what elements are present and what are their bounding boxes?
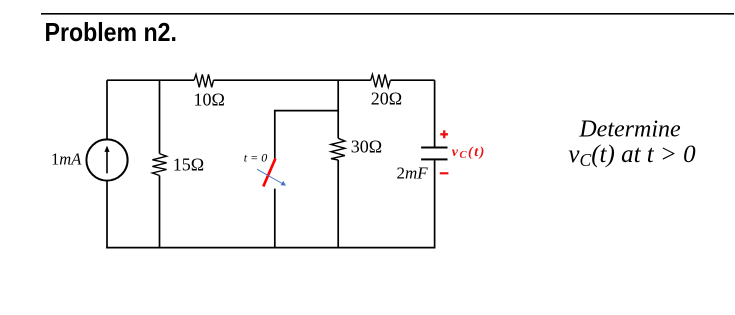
svg-text:2mF: 2mF [397, 164, 429, 183]
value label 10Ω [194, 90, 225, 110]
problem statement line 2 "vC(t) at t > 0" [568, 141, 696, 170]
svg-text:vC(t): vC(t) [452, 145, 486, 161]
wire bottom rail [106, 247, 435, 249]
wire 30Ω branch lower [337, 160, 339, 248]
wire 15Ω branch upper [159, 80, 161, 153]
wire switch branch vertical lower [274, 189, 276, 249]
switch SW1 blade (red, t=0) [263, 159, 275, 187]
value label 15Ω [173, 155, 204, 175]
resistor 15Ω (vertical zigzag) [152, 154, 166, 176]
wire 15Ω branch lower [159, 176, 161, 249]
value label 20Ω [371, 89, 402, 109]
current source I1 (circle with up arrow) [86, 139, 127, 180]
top divider rule [41, 13, 734, 15]
svg-text:30Ω: 30Ω [351, 137, 382, 157]
title "Problem n2." [45, 17, 178, 47]
resistor 20Ω (zigzag on top rail) [371, 74, 391, 87]
svg-text:t = 0: t = 0 [244, 151, 267, 165]
svg-text:10Ω: 10Ω [194, 90, 225, 110]
wire left rail lower (current source to bottom rail) [106, 181, 108, 249]
svg-text:15Ω: 15Ω [173, 155, 204, 175]
svg-text:Determine: Determine [578, 117, 681, 143]
wire switch branch horizontal (switch top to node B) [275, 110, 338, 112]
wire top rail middle segment (10Ω to node B) [214, 79, 371, 81]
resistor 30Ω (vertical zigzag) [331, 138, 345, 160]
label t = 0 [244, 151, 267, 165]
value label 1mA [51, 150, 82, 169]
label vC(t) (red) [452, 145, 486, 161]
svg-text:1mA: 1mA [51, 150, 82, 169]
wire left rail upper (top rail to current source) [106, 80, 108, 139]
svg-text:Problem n2.: Problem n2. [45, 17, 178, 47]
wire switch branch vertical upper [274, 110, 276, 159]
svg-text:20Ω: 20Ω [371, 89, 402, 109]
polarity + (red) [440, 130, 448, 138]
switch actuation arrow (blue) [257, 169, 286, 185]
wire right rail upper (top-right corner to capacitor) [434, 80, 436, 147]
wire top rail left segment (node A to 10Ω) [107, 79, 194, 81]
wire right rail lower (capacitor to bottom-right corner) [434, 160, 436, 248]
value label 30Ω [351, 137, 382, 157]
problem statement line 1 "Determine" [578, 117, 681, 143]
wire 30Ω branch upper (node B down) [337, 80, 339, 138]
svg-text:vC(t) at t > 0: vC(t) at t > 0 [568, 141, 696, 170]
wire top rail right segment (20Ω to top-right corner) [390, 79, 434, 81]
resistor 10Ω (zigzag on top rail) [194, 74, 214, 87]
polarity − (red) [440, 172, 449, 174]
value label 2mF [397, 164, 429, 183]
capacitor 2mF (plates) [421, 147, 447, 161]
